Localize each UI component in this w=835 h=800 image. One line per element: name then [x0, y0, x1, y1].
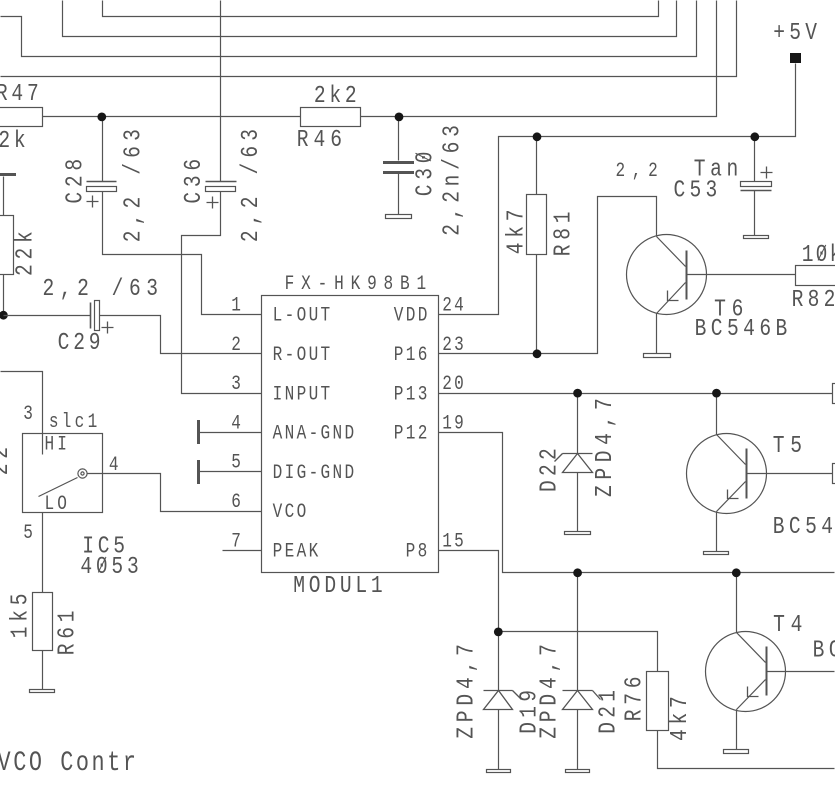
svg-text:4k7: 4k7 — [503, 205, 531, 254]
svg-text:R81: R81 — [550, 207, 578, 256]
svg-text:1: 1 — [231, 295, 243, 317]
svg-text:2,2n/63: 2,2n/63 — [439, 120, 467, 235]
svg-text:P13: P13 — [394, 384, 430, 406]
svg-text:ZPD4,7: ZPD4,7 — [591, 393, 619, 497]
svg-text:INPUT: INPUT — [273, 384, 333, 406]
svg-text:4: 4 — [109, 455, 121, 477]
svg-text:ANA-GND: ANA-GND — [273, 423, 357, 445]
svg-text:3: 3 — [23, 404, 35, 426]
svg-text:T5: T5 — [773, 432, 808, 460]
svg-text:P16: P16 — [394, 345, 430, 367]
svg-text:D22: D22 — [536, 444, 564, 492]
svg-text:C36: C36 — [180, 154, 208, 203]
svg-text:LO: LO — [44, 494, 70, 516]
svg-text:4k7: 4k7 — [666, 692, 694, 741]
svg-text:P8: P8 — [406, 541, 430, 563]
svg-text:FX-HK98B1: FX-HK98B1 — [285, 273, 433, 295]
svg-text:15: 15 — [442, 531, 466, 553]
svg-text:R61: R61 — [54, 606, 82, 655]
svg-text:22: 22 — [0, 442, 15, 475]
svg-text:4053: 4053 — [80, 553, 142, 581]
svg-text:2,2: 2,2 — [616, 161, 665, 183]
svg-text:7: 7 — [231, 531, 243, 553]
svg-text:R76: R76 — [620, 672, 648, 721]
svg-text:2,2 /63: 2,2 /63 — [237, 124, 265, 242]
svg-text:slc1: slc1 — [49, 412, 101, 434]
svg-text:C29: C29 — [58, 329, 105, 357]
svg-text:2: 2 — [231, 334, 243, 356]
svg-text:ZPD4,7: ZPD4,7 — [453, 639, 481, 739]
svg-text:DIG-GND: DIG-GND — [273, 462, 357, 484]
svg-text:T4: T4 — [773, 611, 808, 639]
svg-text:VCO: VCO — [273, 502, 309, 524]
svg-text:HI: HI — [44, 434, 70, 456]
svg-text:1k5: 1k5 — [7, 589, 35, 638]
svg-text:20: 20 — [442, 374, 466, 396]
svg-text:4: 4 — [231, 413, 243, 435]
svg-text:D21: D21 — [595, 686, 623, 734]
svg-text:VCO Contr: VCO Contr — [0, 748, 139, 779]
svg-text:2k: 2k — [0, 127, 29, 155]
svg-text:C30: C30 — [412, 147, 440, 196]
svg-text:BC546B: BC546B — [773, 513, 835, 541]
svg-text:19: 19 — [442, 413, 466, 435]
svg-text:L-OUT: L-OUT — [273, 305, 333, 327]
svg-text:2k2: 2k2 — [314, 82, 361, 110]
svg-text:VDD: VDD — [394, 305, 430, 327]
svg-text:R46: R46 — [297, 126, 347, 154]
svg-text:C28: C28 — [62, 154, 90, 203]
svg-text:+5V: +5V — [773, 19, 821, 47]
svg-text:P12: P12 — [394, 423, 430, 445]
svg-text:6: 6 — [231, 492, 243, 514]
svg-text:C53: C53 — [674, 177, 722, 205]
svg-text:BC546B: BC546B — [813, 637, 835, 665]
svg-text:D19: D19 — [516, 686, 544, 734]
svg-text:MODUL1: MODUL1 — [293, 572, 386, 600]
svg-text:10k: 10k — [802, 241, 835, 269]
svg-text:R82: R82 — [792, 286, 835, 314]
svg-text:BC546B: BC546B — [695, 315, 792, 343]
svg-text:22k: 22k — [12, 227, 40, 276]
svg-text:R47: R47 — [0, 80, 42, 108]
svg-text:3: 3 — [231, 374, 243, 396]
svg-text:5: 5 — [23, 523, 35, 545]
svg-text:2,2 /63: 2,2 /63 — [120, 124, 148, 242]
svg-text:PEAK: PEAK — [273, 541, 321, 563]
svg-text:R-OUT: R-OUT — [273, 345, 333, 367]
svg-text:24: 24 — [442, 295, 466, 317]
svg-text:2,2 /63: 2,2 /63 — [42, 275, 163, 303]
